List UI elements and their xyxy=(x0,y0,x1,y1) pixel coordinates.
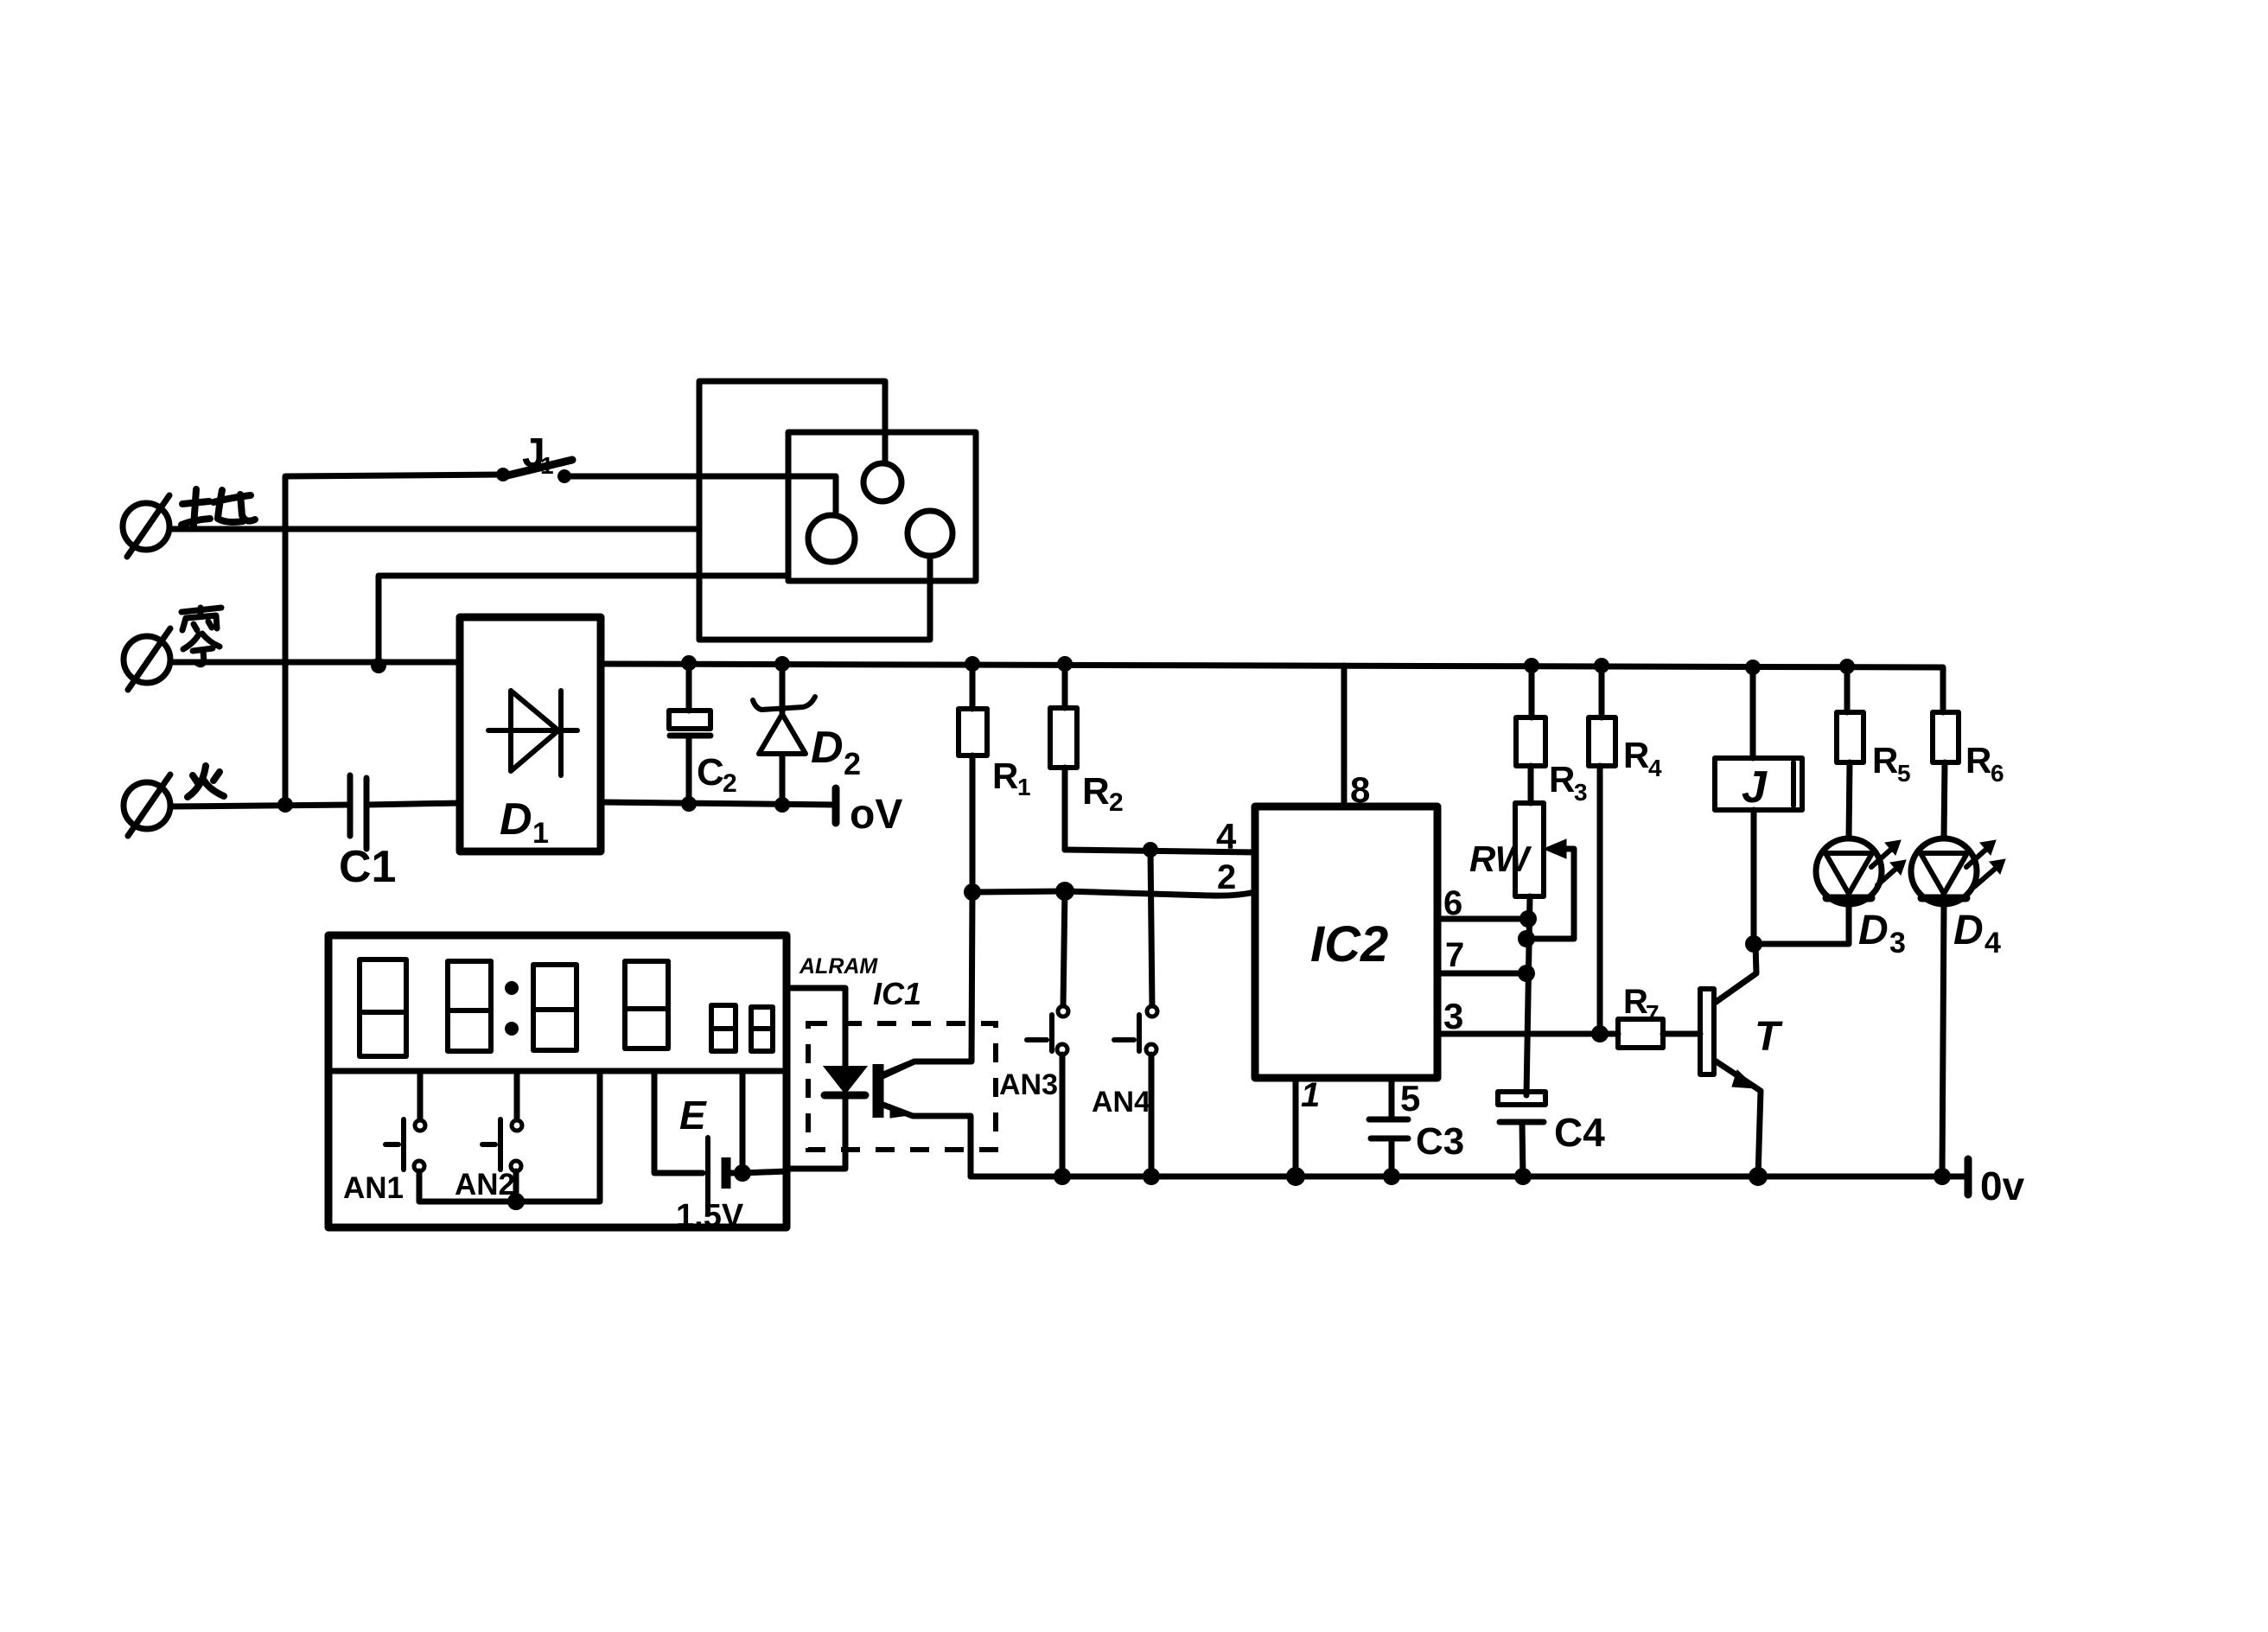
svg-text:1: 1 xyxy=(1017,774,1031,800)
display digit 1 xyxy=(360,959,406,1056)
label AN1 xyxy=(343,1171,404,1205)
node AN4 top xyxy=(1143,842,1158,857)
node rail C4 xyxy=(1514,1168,1532,1185)
svg-text:C1: C1 xyxy=(339,842,396,892)
optocoupler IC1 dashed box xyxy=(808,1023,996,1150)
svg-text:1.5V: 1.5V xyxy=(676,1198,744,1234)
push button AN4 xyxy=(1114,850,1157,1176)
svg-text:4: 4 xyxy=(1984,927,2001,959)
svg-text:3: 3 xyxy=(1574,779,1588,806)
wire 地 terminal to socket loop xyxy=(169,526,699,532)
label R1 xyxy=(992,755,1031,800)
svg-text:D: D xyxy=(500,794,532,845)
wire D1 negative output (0V line) xyxy=(601,802,836,805)
LED D3 light arrows xyxy=(1871,840,1906,885)
IC1 LED xyxy=(787,1068,865,1169)
wire R1 junction to IC2 pin2 xyxy=(972,891,1255,896)
label AN2 xyxy=(455,1168,515,1202)
0V terminal (power supply) xyxy=(832,788,840,823)
IC2 box xyxy=(1255,806,1437,1078)
svg-text:R: R xyxy=(1872,740,1898,781)
svg-text:C: C xyxy=(697,751,724,794)
IC2 pin 7 wire xyxy=(1437,971,1526,977)
svg-text:5: 5 xyxy=(1400,1078,1420,1119)
svg-text:R: R xyxy=(1623,983,1648,1021)
IC2 pin 8 wire xyxy=(1341,666,1347,806)
svg-text:3: 3 xyxy=(1443,996,1463,1036)
svg-text:R: R xyxy=(1623,735,1649,775)
svg-text:AN4: AN4 xyxy=(1092,1086,1150,1119)
svg-text:R: R xyxy=(1965,740,1991,781)
svg-text:oV: oV xyxy=(850,792,902,838)
resistor R4 xyxy=(1589,666,1615,1034)
transistor T xyxy=(1700,944,1761,1176)
node D2 top xyxy=(774,656,790,672)
LED D4 xyxy=(1911,838,1977,1176)
pin label 1 xyxy=(1301,1076,1320,1114)
svg-text:E: E xyxy=(679,1093,707,1138)
bridge rectifier D1 box xyxy=(460,617,601,851)
resistor R6 xyxy=(1933,712,1959,838)
node R1 bottom junction xyxy=(964,883,981,901)
node wiper return xyxy=(1518,930,1535,947)
wire R2 to IC2 pin4 xyxy=(1065,850,1255,852)
battery E xyxy=(654,1071,787,1212)
label AN4 xyxy=(1092,1086,1150,1119)
svg-text:D: D xyxy=(1858,908,1889,953)
clock module box xyxy=(328,935,787,1227)
label ALARM xyxy=(799,954,878,979)
capacitor C1 xyxy=(350,775,460,849)
resistor R2 xyxy=(1050,664,1077,850)
push button AN3 xyxy=(1027,891,1068,1176)
switch J1 xyxy=(496,460,572,483)
resistor R3 xyxy=(1516,666,1545,803)
terminal 地 (earth input) xyxy=(123,495,169,557)
capacitor C3 xyxy=(1369,1119,1408,1176)
terminal 火 (live input) xyxy=(124,775,170,836)
label T xyxy=(1755,1014,1783,1060)
label J xyxy=(1742,762,1768,813)
svg-text:7: 7 xyxy=(1646,1000,1660,1027)
wire 火 terminal to C1 xyxy=(170,805,350,806)
svg-text:D: D xyxy=(1953,908,1984,953)
svg-text:2: 2 xyxy=(844,746,861,781)
zener diode D2 xyxy=(753,664,815,805)
node: neutral junction to socket xyxy=(371,658,386,673)
label D2 xyxy=(811,723,861,781)
svg-text:2: 2 xyxy=(1109,788,1124,817)
node C2 top xyxy=(681,655,697,671)
pin label 3 xyxy=(1443,996,1463,1036)
label AN3 xyxy=(999,1068,1058,1101)
svg-text:6: 6 xyxy=(1991,760,2004,787)
IC2 pin 5 wire xyxy=(1389,1078,1395,1119)
label R7 xyxy=(1623,983,1660,1027)
node AN3 top xyxy=(1055,882,1074,901)
label C4 xyxy=(1554,1110,1605,1155)
resistor R5 xyxy=(1837,666,1863,838)
wire junction down to opto collector xyxy=(883,892,972,1074)
display small digit 1 xyxy=(711,1005,736,1051)
socket hole top (earth pin) xyxy=(863,463,901,501)
node collector junction xyxy=(1745,935,1762,953)
node relay J top xyxy=(1745,660,1761,675)
wire J1 to socket hole xyxy=(564,476,836,515)
svg-text:T: T xyxy=(1755,1014,1783,1060)
socket hole left (live pin) xyxy=(808,515,855,562)
potentiometer RW xyxy=(1515,803,1574,1095)
svg-text:IC1: IC1 xyxy=(873,976,921,1011)
label IC1 xyxy=(873,976,921,1011)
node pin6/RW xyxy=(1519,910,1537,928)
node R4 top xyxy=(1594,658,1609,673)
svg-text:ALRAM: ALRAM xyxy=(799,954,878,979)
push button AN1 xyxy=(385,1071,600,1202)
svg-text:0v: 0v xyxy=(1980,1163,2025,1208)
node pin3 junction xyxy=(1591,1025,1609,1042)
label D4 xyxy=(1953,908,2001,959)
svg-text:3: 3 xyxy=(1889,927,1906,959)
pin label 2 xyxy=(1217,858,1236,896)
node rail emitter xyxy=(1749,1167,1768,1186)
pin label 7 xyxy=(1445,936,1464,974)
label C3 xyxy=(1416,1120,1464,1163)
label IC2 xyxy=(1310,916,1388,972)
socket hole right (neutral pin) xyxy=(908,511,952,556)
svg-text:2: 2 xyxy=(723,769,737,798)
label C2 xyxy=(697,751,737,798)
IC2 pin 3 wire xyxy=(1437,1031,1618,1037)
svg-text:1: 1 xyxy=(1301,1076,1320,1114)
label J1 xyxy=(522,430,554,479)
bottom 0V rail xyxy=(971,1174,1968,1180)
IC1 phototransistor xyxy=(878,1061,971,1176)
svg-text:8: 8 xyxy=(1350,769,1370,810)
svg-text:4: 4 xyxy=(1648,755,1662,781)
svg-text:2: 2 xyxy=(1217,858,1236,896)
svg-text:AN2: AN2 xyxy=(455,1168,515,1202)
svg-text:AN1: AN1 xyxy=(343,1171,404,1205)
label E xyxy=(679,1093,707,1138)
node rail AN4 xyxy=(1143,1168,1160,1185)
label 零 xyxy=(182,608,221,665)
svg-text:7: 7 xyxy=(1445,936,1464,974)
push button AN2 xyxy=(482,1071,522,1202)
label 0V left xyxy=(850,792,902,838)
node rail C3 xyxy=(1383,1168,1400,1185)
node: live junction xyxy=(277,797,293,813)
label RW xyxy=(1469,838,1532,879)
svg-text:5: 5 xyxy=(1897,760,1911,787)
svg-text:AN3: AN3 xyxy=(999,1068,1058,1101)
node AN1/AN2 bottom xyxy=(507,1193,525,1210)
node battery xyxy=(734,1164,751,1182)
wire live junction up to switch J1 xyxy=(285,475,503,805)
capacitor C2 (electrolytic) xyxy=(669,663,710,804)
node pin7 xyxy=(1518,965,1535,982)
resistor R7 (base resistor) xyxy=(1618,1019,1700,1048)
svg-text:1: 1 xyxy=(540,452,554,479)
svg-text:R: R xyxy=(992,755,1018,796)
node rail AN3 xyxy=(1054,1168,1071,1185)
label R5 xyxy=(1872,740,1911,787)
wire D1 positive output rail (top) xyxy=(601,664,1943,712)
capacitor C4 (electrolytic) xyxy=(1498,1092,1545,1176)
display digit 2 xyxy=(448,961,491,1051)
node rail D4 xyxy=(1934,1168,1951,1185)
LED D4 light arrows xyxy=(1966,840,2005,887)
label D3 xyxy=(1858,908,1906,959)
svg-text:C4: C4 xyxy=(1554,1110,1605,1155)
node R5 top xyxy=(1839,659,1855,674)
resistor R1 xyxy=(959,664,987,892)
label 地 xyxy=(182,489,255,526)
display small digit 2 xyxy=(751,1007,773,1051)
node C2 bottom xyxy=(681,796,697,812)
terminal 零 (neutral input) xyxy=(124,628,170,690)
display digit 4 xyxy=(625,961,668,1049)
node R3 top xyxy=(1524,658,1539,673)
clock display divider xyxy=(328,1068,787,1074)
wire 零 terminal to rectifier D1 xyxy=(170,660,460,666)
label R2 xyxy=(1082,770,1124,817)
svg-text:C3: C3 xyxy=(1416,1120,1464,1163)
wire socket back loop (relay output routing) xyxy=(699,381,930,640)
wire neutral junction up to socket face xyxy=(379,576,788,666)
svg-text:D: D xyxy=(811,723,844,773)
node rail pin1 xyxy=(1286,1167,1305,1186)
display digit 3 xyxy=(533,965,577,1050)
node R1 top xyxy=(965,656,980,672)
pin label 4 xyxy=(1216,816,1237,857)
pin label 8 xyxy=(1350,769,1370,810)
svg-text:RW: RW xyxy=(1469,838,1532,879)
svg-text:1: 1 xyxy=(532,817,549,850)
relay coil J xyxy=(1715,667,1802,944)
label C1 xyxy=(339,842,396,892)
label R4 xyxy=(1623,735,1662,781)
label 1.5V xyxy=(676,1198,744,1234)
label 火 xyxy=(188,766,224,797)
svg-text:R: R xyxy=(1549,759,1575,800)
diode symbol inside D1 xyxy=(488,691,577,775)
svg-text:R: R xyxy=(1082,770,1110,813)
display colon xyxy=(505,981,519,1036)
wire clock ALARM output to IC1 LED xyxy=(787,988,845,1068)
LED D3 xyxy=(1754,838,1882,944)
label 0V right xyxy=(1980,1163,2025,1208)
svg-text:J: J xyxy=(1742,762,1768,813)
socket face box xyxy=(788,432,976,581)
label D1 xyxy=(500,794,549,850)
node R2 top xyxy=(1057,656,1073,672)
0V terminal right xyxy=(1965,1159,1972,1195)
pin label 6 xyxy=(1443,884,1462,922)
label R6 xyxy=(1965,740,2004,787)
IC2 pin 1 wire xyxy=(1293,1078,1299,1176)
label R3 xyxy=(1549,759,1588,806)
svg-text:4: 4 xyxy=(1216,816,1237,857)
IC2 pin 6 wire xyxy=(1437,916,1528,922)
node D2 bottom xyxy=(774,797,790,813)
svg-text:IC2: IC2 xyxy=(1310,916,1388,972)
pin label 5 xyxy=(1400,1078,1420,1119)
